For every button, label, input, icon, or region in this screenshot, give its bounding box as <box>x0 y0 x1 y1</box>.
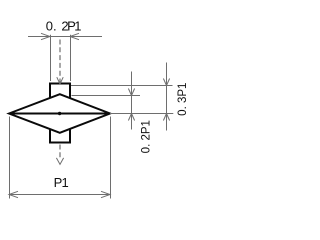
svg-text:0.: 0. <box>46 18 57 33</box>
center line extension to right <box>110 113 173 115</box>
extension line from diamond top vertex to right <box>72 95 141 97</box>
extension line right of tab <box>70 35 72 81</box>
outer vertical dimension line 0.3P1 <box>163 63 169 131</box>
bottom dimension line P1 <box>9 191 110 197</box>
bottom dimension extension line left <box>9 117 11 199</box>
diamond fiducial mark outline <box>9 94 110 133</box>
right inward arrow <box>70 33 79 39</box>
left inward arrow <box>41 33 50 39</box>
svg-text:0. 2P1: 0. 2P1 <box>141 120 153 153</box>
extension line from tab top to right <box>71 85 173 87</box>
inner vertical dimension line 0.2P1 <box>128 72 134 130</box>
svg-text:P1: P1 <box>54 175 69 190</box>
extension line left of tab <box>50 35 52 81</box>
svg-text:0. 3P1: 0. 3P1 <box>177 83 189 116</box>
dashed center arrow below bottom tab <box>56 145 63 165</box>
top tab (0.2P1 wide) <box>50 84 70 99</box>
center dot <box>58 112 61 115</box>
top dimension line <box>28 33 102 81</box>
svg-text:2P1: 2P1 <box>61 18 81 33</box>
dashed center arrow into top tab <box>57 40 63 85</box>
diamond horizontal diagonal <box>9 113 110 115</box>
bottom tab <box>50 129 70 143</box>
bottom dimension extension line right <box>110 117 112 199</box>
